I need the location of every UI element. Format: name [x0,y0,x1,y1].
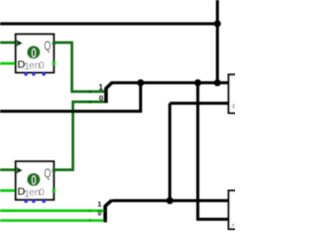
box U3 gray label fragment [233,104,235,108]
bus: right vertical from top edge down to main bus [216,0,219,83]
svg-text:0: 0 [31,47,36,61]
flip-flop U1 floating pin dot (enable) [32,72,35,75]
bus: main horizontal from splitter S1 root to right box U3 [112,81,230,84]
bus: top horizontal (black) [0,22,217,25]
svg-text:0: 0 [99,93,103,102]
flip-flop U2 body [16,161,54,199]
junction dot at (217.4,23.7) [214,20,221,27]
flip-flop U2 clock triangle [17,167,23,173]
svg-text:Q: Q [44,166,51,180]
svg-text:0: 0 [39,60,45,71]
flip-flop U1 floating pin dot (set) [24,72,27,75]
wire: splitter S2 bit 0 (bright green, from left edge) [0,219,104,222]
svg-text:0: 0 [98,209,102,218]
flip-flop U1 clock triangle [17,40,23,46]
splitter S2 diagonal to root [105,200,112,206]
wire: splitter S2 bit 1 (bright green, from left edge) [0,209,104,212]
bus: corner x=169.8 from y=103.2 down to y=200.6 [168,103,171,200]
bus: splitter S2 root to box U4 upper pin [112,199,230,202]
svg-text:Q: Q [44,39,51,53]
box U4 (partially visible component at right edge) [229,191,243,229]
wire: FF1 D input (bright green, from left edge) [0,62,17,65]
svg-text:1: 1 [99,83,104,92]
junction dot at (169.8,200.6) [166,197,173,204]
svg-text:1: 1 [98,200,102,209]
flip-flop U2 state disc value 0 [27,173,40,186]
flip-flop U1 floating pin dot (reset) [42,72,45,75]
flip-flop U2 inverted-Q port (bright green, value 1) [52,189,55,192]
splitter S2 spine [103,206,107,223]
junction dot at (217.4,82.8) [214,79,221,86]
box U3 (partially visible component at right edge) [229,75,243,113]
wire: FF2 D input (bright green, from left edge) [0,189,17,192]
wire: FF1 Q output to splitter S1 bit 1 (dark green, value 0) [54,43,105,92]
bus: horizontal into box U3 lower pin [170,102,230,105]
flip-flop U1 body [16,34,54,72]
box U4 gray label fragment [232,224,234,226]
flip-flop U1 clock port dot [16,42,18,44]
wire: FF2 Q output to splitter S1 bit 0 (dark green, value 0) [54,102,105,170]
junction dot at (197.8,82.8) [194,79,201,86]
bus: branch down at x=140.6 then left to edge [0,83,141,111]
joint dot on S1 bit-1 wire [89,90,92,93]
wire: FF1 clock input (dark green, from left edge) [0,41,17,44]
flip-flop U2 Q output port (dark green, value 0) [52,169,55,172]
joint dot on S2 bit-1 wire [89,209,92,212]
flip-flop U1 inverted-Q port (bright green, value 1) [52,62,55,65]
svg-text:0: 0 [39,188,45,199]
joint dot on S2 bit-0 wire [89,219,92,222]
splitter S1 diagonal to root [106,82,113,89]
flip-flop U1 Q output port (dark green, value 0) [52,42,55,45]
flip-flop U2 floating pin dot (enable) [32,200,35,203]
svg-text:0: 0 [31,174,36,188]
splitter S1 spine [104,88,108,103]
junction dot at (140.6,82.8) [137,79,144,86]
flip-flop U2 floating pin dot (reset) [42,200,45,203]
wire: FF2 clock input (dark green, from left edge) [0,169,17,172]
joint dot on S1 bit-0 wire [89,100,92,103]
bus: branch at x=197.8 down then right into box U4 lower pin [198,83,230,219]
flip-flop U2 floating pin dot (set) [24,200,27,203]
flip-flop U1 state disc value 0 [27,46,40,59]
flip-flop U2 clock port dot [16,169,18,171]
